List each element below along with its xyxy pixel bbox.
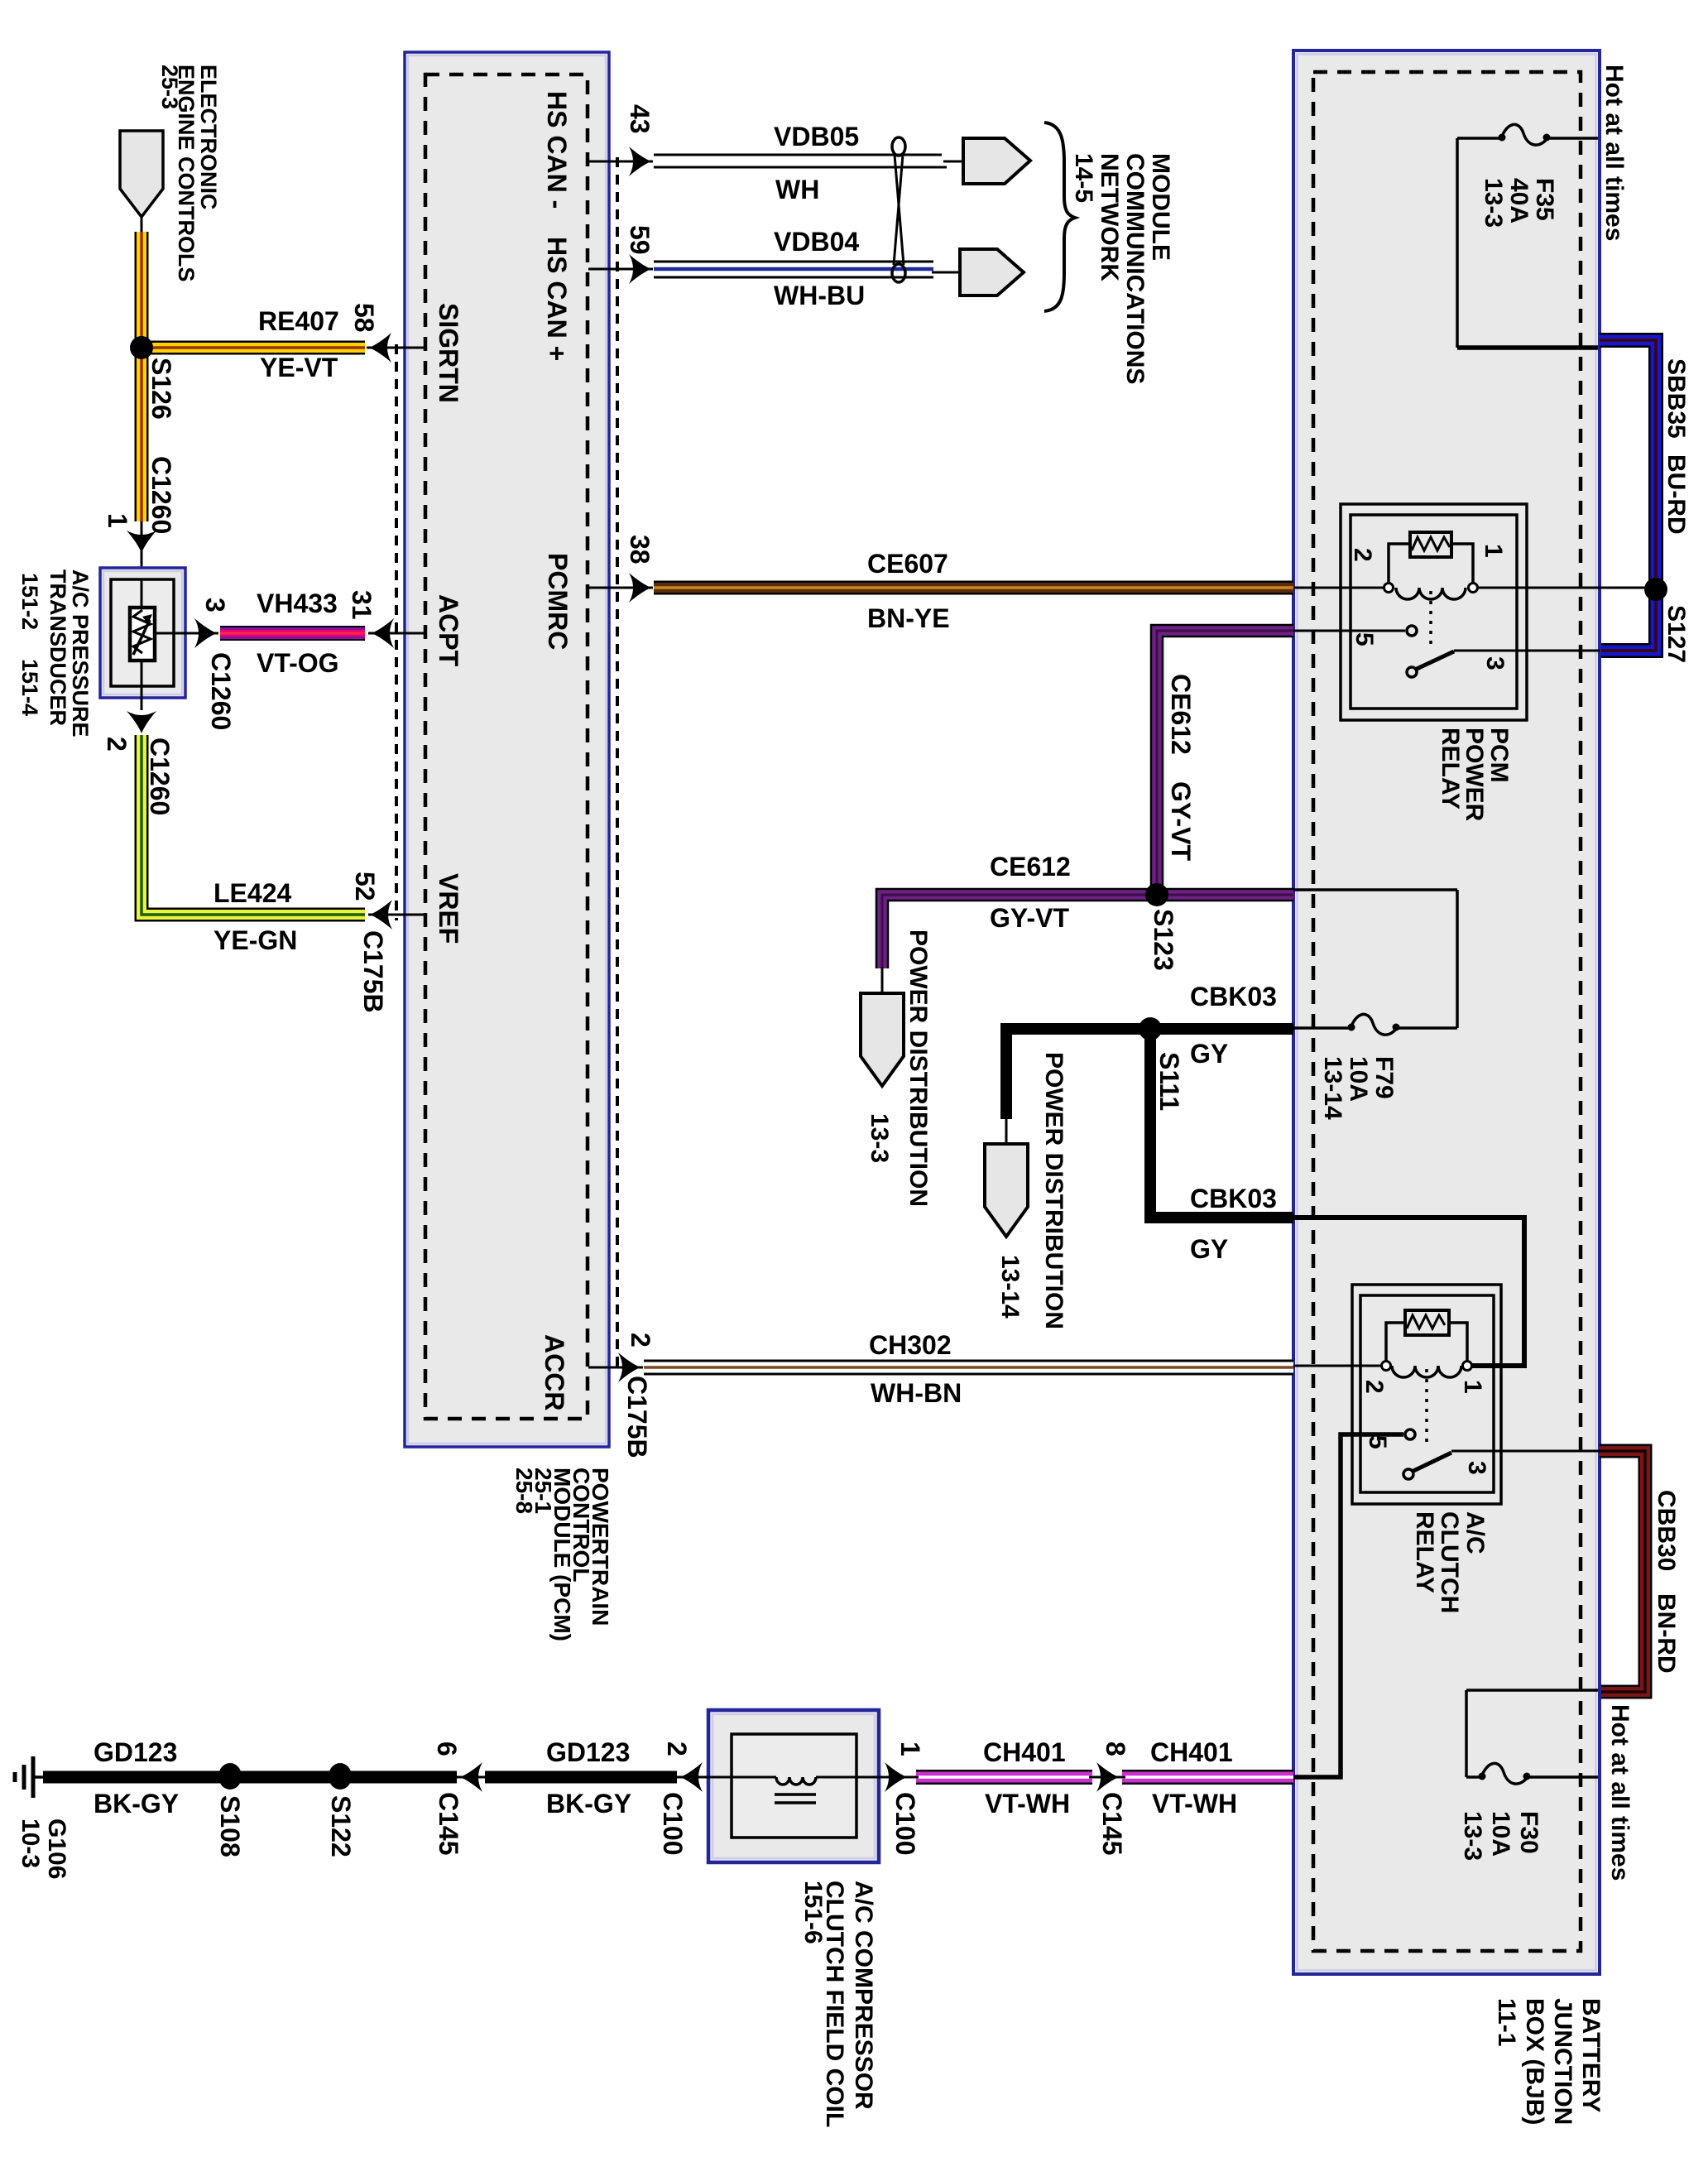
wire stub VREF pin 52 bbox=[368, 914, 425, 916]
svg-text:2: 2 bbox=[662, 1742, 692, 1756]
connector arrow C1260 pin 2 bbox=[127, 711, 156, 733]
svg-text:C145: C145 bbox=[1097, 1792, 1127, 1856]
svg-text:RELAY: RELAY bbox=[1411, 1511, 1438, 1593]
svg-text:CH401: CH401 bbox=[983, 1737, 1066, 1767]
svg-text:25-3: 25-3 bbox=[157, 65, 182, 109]
relay pin 5 wire from CH401 bbox=[1293, 1434, 1403, 1777]
fuse F35 40A bbox=[1457, 124, 1598, 348]
svg-text:1: 1 bbox=[1480, 544, 1507, 558]
label GD123 BK-GY (left) bbox=[94, 1737, 179, 1818]
relay pin labels 2 1 5 3 bbox=[1349, 544, 1509, 670]
svg-text:14-5: 14-5 bbox=[1070, 153, 1097, 203]
svg-text:BN-RD: BN-RD bbox=[1653, 1593, 1680, 1674]
wire CE612 GY-VT (vertical from relay pin 5) bbox=[1157, 631, 1293, 895]
svg-text:3: 3 bbox=[200, 598, 230, 613]
svg-text:GY-VT: GY-VT bbox=[1166, 781, 1196, 861]
label CE612 GY-VT (horizontal wire) bbox=[990, 852, 1071, 933]
pin 2 ACCR stub bbox=[588, 1367, 643, 1369]
svg-text:S108: S108 bbox=[215, 1795, 245, 1857]
svg-text:COMMUNICATIONS: COMMUNICATIONS bbox=[1121, 153, 1149, 384]
svg-text:POWER DISTRIBUTION: POWER DISTRIBUTION bbox=[904, 930, 932, 1207]
connector arrow at pin 58 bbox=[369, 333, 391, 363]
svg-text:59: 59 bbox=[625, 225, 655, 255]
label MODULE COMMUNICATIONS NETWORK 14-5 bbox=[1070, 153, 1174, 384]
twisted pair twist symbol bbox=[892, 137, 905, 282]
relay coil feed line (CE607) bbox=[1293, 587, 1384, 589]
pin 43 stub bbox=[588, 161, 653, 163]
svg-text:40A: 40A bbox=[1505, 178, 1533, 223]
power distribution off-page arrow 13-3 bbox=[881, 967, 884, 997]
svg-text:C145: C145 bbox=[434, 1792, 463, 1856]
label VDB05 WH bbox=[774, 122, 859, 204]
wire thin joints at bottom connectors bbox=[453, 1776, 1125, 1779]
svg-text:LE424: LE424 bbox=[213, 878, 291, 908]
svg-text:YE-GN: YE-GN bbox=[213, 925, 297, 955]
svg-text:6: 6 bbox=[432, 1742, 462, 1756]
label POWER DISTRIBUTION 13-3 bbox=[866, 930, 932, 1207]
label CBB30 BN-RD bbox=[1653, 1490, 1680, 1674]
svg-text:WH-BN: WH-BN bbox=[871, 1378, 962, 1408]
svg-text:25-8: 25-8 bbox=[511, 1468, 537, 1514]
relay switch pole bbox=[1403, 1469, 1413, 1479]
svg-text:GY-VT: GY-VT bbox=[990, 903, 1069, 933]
svg-text:1: 1 bbox=[1459, 1380, 1486, 1394]
wire VH433 VT-OG bbox=[220, 626, 365, 641]
svg-text:BATTERY: BATTERY bbox=[1577, 1998, 1605, 2112]
svg-text:TRANSDUCER: TRANSDUCER bbox=[46, 569, 70, 726]
svg-text:GD123: GD123 bbox=[546, 1737, 630, 1767]
svg-text:POWER DISTRIBUTION: POWER DISTRIBUTION bbox=[1040, 1052, 1067, 1329]
svg-text:Hot at all times: Hot at all times bbox=[1600, 65, 1628, 241]
svg-text:S127: S127 bbox=[1662, 605, 1690, 663]
connector dashed line (right of PCM) bbox=[616, 157, 619, 1370]
svg-text:151-6: 151-6 bbox=[799, 1881, 827, 1944]
svg-text:CE612: CE612 bbox=[990, 852, 1071, 882]
connector arrow C145 pin 6 bbox=[460, 1762, 482, 1792]
svg-text:13-3: 13-3 bbox=[1480, 178, 1507, 228]
relay pin 5 contact bbox=[1405, 1429, 1415, 1439]
wire CH401 VT-WH (right) bbox=[1122, 1770, 1293, 1785]
label GD123 BK-GY (middle) bbox=[546, 1737, 631, 1818]
PCM power relay bbox=[1341, 504, 1527, 720]
A/C clutch relay bbox=[1352, 1285, 1501, 1504]
svg-text:151-4: 151-4 bbox=[17, 659, 42, 716]
svg-text:1: 1 bbox=[895, 1742, 925, 1756]
svg-text:S126: S126 bbox=[146, 358, 176, 420]
wire CH302 WH-BN bbox=[644, 1360, 1293, 1376]
A/C pressure transducer box bbox=[100, 568, 195, 710]
fuse F79 10A bbox=[1293, 890, 1457, 1035]
wire stub ACPT pin 31 bbox=[368, 632, 425, 635]
label POWER DISTRIBUTION 13-14 bbox=[996, 1052, 1067, 1329]
svg-text:C1260: C1260 bbox=[145, 737, 175, 815]
svg-text:VH433: VH433 bbox=[257, 589, 338, 618]
svg-text:C100: C100 bbox=[658, 1792, 688, 1856]
svg-text:CBB30: CBB30 bbox=[1653, 1490, 1680, 1571]
svg-text:S111: S111 bbox=[1154, 1052, 1184, 1111]
wire GD123 BK-GY (ground side) bbox=[43, 1771, 457, 1784]
relay switch pole bbox=[1407, 667, 1417, 677]
svg-text:A/C: A/C bbox=[1461, 1511, 1489, 1554]
relay pin labels 2 1 5 3 bbox=[1360, 1380, 1490, 1475]
svg-text:JUNCTION: JUNCTION bbox=[1549, 1998, 1576, 2125]
svg-text:ACPT: ACPT bbox=[434, 594, 463, 667]
off-page connector ELECTRONIC ENGINE CONTROLS bbox=[120, 131, 163, 233]
svg-text:WH-BU: WH-BU bbox=[774, 281, 865, 310]
svg-text:PCM: PCM bbox=[1485, 728, 1513, 783]
svg-text:HS CAN +: HS CAN + bbox=[542, 237, 572, 361]
svg-text:2: 2 bbox=[102, 737, 132, 752]
wire LE424 YE-GN bbox=[142, 735, 365, 915]
svg-text:C175B: C175B bbox=[622, 1376, 652, 1458]
label F35 40A 13-3 bbox=[1480, 178, 1558, 228]
wire SBB35 BU-RD bbox=[1600, 340, 1656, 651]
pin 3 arrow of transducer bbox=[194, 618, 217, 648]
relay coil feed line (CH302) bbox=[1293, 1365, 1382, 1367]
relay pin 5 contact bbox=[1407, 626, 1417, 636]
pin 38 stub bbox=[588, 587, 653, 589]
svg-text:5: 5 bbox=[1364, 1435, 1391, 1449]
svg-text:43: 43 bbox=[625, 104, 655, 134]
svg-text:G106: G106 bbox=[43, 1818, 70, 1879]
svg-text:2: 2 bbox=[1349, 548, 1376, 562]
transducer sensor element bbox=[130, 608, 155, 661]
svg-text:13-3: 13-3 bbox=[1459, 1811, 1486, 1861]
svg-text:ELECTRONIC: ELECTRONIC bbox=[196, 65, 221, 210]
svg-text:VREF: VREF bbox=[434, 873, 463, 944]
svg-text:2: 2 bbox=[626, 1333, 655, 1348]
svg-text:C1260: C1260 bbox=[146, 456, 176, 534]
svg-text:8: 8 bbox=[1101, 1742, 1130, 1756]
connector arrow C100 pin 1 bbox=[885, 1762, 907, 1792]
svg-text:CBK03: CBK03 bbox=[1190, 1184, 1277, 1213]
svg-text:10-3: 10-3 bbox=[17, 1818, 44, 1868]
wire CBK03 GY (upper, from F79) bbox=[1006, 1029, 1293, 1119]
label G106 10-3 bbox=[17, 1818, 70, 1879]
brace bbox=[1044, 123, 1075, 311]
splice S122 bbox=[329, 1763, 352, 1790]
svg-text:SBB35: SBB35 bbox=[1662, 358, 1690, 439]
svg-text:BU-RD: BU-RD bbox=[1662, 454, 1690, 535]
relay coil nodes bbox=[1384, 584, 1394, 593]
svg-text:S122: S122 bbox=[326, 1795, 356, 1857]
svg-text:RELAY: RELAY bbox=[1437, 728, 1464, 810]
wire CH401 VT-WH (left) bbox=[916, 1770, 1092, 1785]
svg-text:BN-YE: BN-YE bbox=[867, 603, 950, 633]
svg-text:11-1: 11-1 bbox=[1493, 1998, 1520, 2046]
BJB box bbox=[1293, 50, 1600, 1974]
svg-text:10A: 10A bbox=[1487, 1811, 1514, 1857]
label F30 10A 13-3 bbox=[1459, 1811, 1542, 1861]
svg-text:13-14: 13-14 bbox=[996, 1255, 1024, 1319]
svg-text:VT-OG: VT-OG bbox=[257, 648, 339, 678]
svg-text:A/C COMPRESSOR: A/C COMPRESSOR bbox=[850, 1881, 877, 2110]
off-page arrow to network (lower) bbox=[960, 249, 1024, 295]
svg-text:WH: WH bbox=[775, 175, 819, 204]
svg-text:VT-WH: VT-WH bbox=[1152, 1789, 1237, 1818]
relay pin 3 line to SBB35 bbox=[1454, 650, 1600, 652]
label BATTERY JUNCTION BOX (BJB) 11-1 bbox=[1493, 1998, 1605, 2125]
label SBB35 BU-RD bbox=[1662, 358, 1690, 535]
splice S126 bbox=[130, 336, 153, 359]
label F79 10A 13-14 bbox=[1319, 1056, 1398, 1120]
connector arrow C145 pin 8 bbox=[1096, 1762, 1119, 1792]
relay pin 3 line to CBB30 bbox=[1451, 1450, 1600, 1453]
wire stub SIGRTN pin 58 bbox=[367, 347, 425, 349]
svg-text:C100: C100 bbox=[890, 1792, 920, 1856]
connector arrow C1260 pin 1 bbox=[141, 521, 143, 579]
svg-text:BOX (BJB): BOX (BJB) bbox=[1521, 1998, 1548, 2125]
svg-text:10A: 10A bbox=[1345, 1056, 1372, 1102]
label A/C PRESSURE TRANSDUCER 151-2 151-4 bbox=[17, 569, 93, 737]
svg-text:151-2: 151-2 bbox=[17, 573, 42, 630]
relay coil nodes bbox=[1382, 1362, 1391, 1371]
wire CE607 BN-YE bbox=[654, 581, 1293, 595]
svg-text:VDB04: VDB04 bbox=[774, 227, 859, 257]
svg-text:A/C PRESSURE: A/C PRESSURE bbox=[68, 569, 93, 737]
label CE612 GY-VT (vertical wire) bbox=[1166, 674, 1196, 861]
wire VDB05 WH twisted pair bbox=[654, 155, 963, 167]
svg-text:CLUTCH: CLUTCH bbox=[1436, 1511, 1463, 1613]
label CBK03 GY (lower) bbox=[1190, 1184, 1277, 1264]
splice S108 bbox=[218, 1763, 242, 1790]
svg-text:MODULE: MODULE bbox=[1147, 153, 1174, 261]
svg-text:VDB05: VDB05 bbox=[774, 122, 859, 151]
svg-text:S123: S123 bbox=[1149, 909, 1178, 971]
connector arrow C100 pin 2 bbox=[680, 1762, 703, 1792]
svg-text:C1260: C1260 bbox=[206, 652, 236, 730]
svg-text:RE407: RE407 bbox=[258, 306, 339, 336]
svg-text:VT-WH: VT-WH bbox=[985, 1789, 1070, 1818]
splice S111 bbox=[1139, 1017, 1162, 1040]
svg-text:13-14: 13-14 bbox=[1319, 1056, 1346, 1120]
svg-text:5: 5 bbox=[1351, 632, 1378, 646]
wire RE407 YE-VT vertical + horizontal bbox=[142, 232, 365, 521]
label PCM POWER RELAY bbox=[1437, 728, 1513, 822]
relay pin 1 line to S127 bbox=[1477, 587, 1656, 589]
svg-text:CE612: CE612 bbox=[1166, 674, 1196, 755]
label ELECTRONIC ENGINE CONTROLS 25-3 bbox=[157, 65, 221, 282]
svg-text:1: 1 bbox=[103, 513, 132, 528]
label A/C CLUTCH RELAY bbox=[1411, 1511, 1489, 1613]
connector C175E dashed line (left of PCM) bbox=[395, 344, 398, 920]
svg-text:BK-GY: BK-GY bbox=[546, 1789, 631, 1818]
svg-text:CH401: CH401 bbox=[1150, 1737, 1233, 1767]
label CE607 BN-YE bbox=[867, 549, 950, 633]
connector arrow at pin 52 bbox=[370, 900, 392, 930]
label POWERTRAIN CONTROL MODULE (PCM) 25-1 25-8 bbox=[511, 1468, 613, 1641]
svg-text:58: 58 bbox=[349, 303, 379, 333]
svg-text:F30: F30 bbox=[1515, 1811, 1542, 1854]
svg-text:GD123: GD123 bbox=[94, 1737, 177, 1767]
svg-text:ACCR: ACCR bbox=[540, 1334, 569, 1410]
power distribution off-page arrow 13-14 bbox=[1005, 1117, 1008, 1146]
off-page arrow to network (upper) bbox=[963, 138, 1030, 184]
label CH401 VT-WH (left) bbox=[983, 1737, 1070, 1818]
svg-text:3: 3 bbox=[1463, 1461, 1490, 1475]
svg-text:HS CAN -: HS CAN - bbox=[542, 91, 572, 209]
ground G106 bbox=[15, 1756, 45, 1798]
svg-text:NETWORK: NETWORK bbox=[1096, 153, 1123, 281]
BJB internal wire CBK03 to A/C clutch relay coil bbox=[1293, 1218, 1524, 1366]
svg-text:F79: F79 bbox=[1370, 1056, 1398, 1099]
wire CBB30 BN-RD bbox=[1600, 1451, 1645, 1692]
wire VDB04 WH-BU twisted pair bbox=[654, 262, 960, 277]
label CBK03 GY (upper) bbox=[1190, 982, 1277, 1069]
connector arrow at pin 31 bbox=[372, 618, 394, 648]
A/C compressor clutch field coil box bbox=[703, 1710, 885, 1862]
svg-text:52: 52 bbox=[350, 872, 380, 901]
svg-text:GY: GY bbox=[1190, 1234, 1228, 1264]
label CH401 VT-WH (right) bbox=[1150, 1737, 1237, 1818]
svg-text:YE-VT: YE-VT bbox=[260, 353, 338, 382]
wire GD123 BK-GY (middle) bbox=[485, 1771, 677, 1784]
splice S127 bbox=[1644, 578, 1667, 601]
svg-text:PCMRC: PCMRC bbox=[543, 553, 573, 650]
label VDB04 WH-BU bbox=[774, 227, 865, 310]
svg-text:CBK03: CBK03 bbox=[1190, 982, 1277, 1011]
svg-text:F35: F35 bbox=[1531, 178, 1558, 221]
pin 59 stub bbox=[588, 268, 653, 271]
relay pin 5 stub from CE612 bbox=[1293, 630, 1405, 632]
svg-text:SIGRTN: SIGRTN bbox=[434, 303, 463, 403]
svg-text:2: 2 bbox=[1360, 1380, 1388, 1394]
label VH433 VT-OG bbox=[257, 589, 339, 678]
svg-text:31: 31 bbox=[347, 590, 377, 620]
svg-text:GY: GY bbox=[1190, 1039, 1228, 1069]
splice S123 bbox=[1145, 883, 1168, 906]
label RE407 YE-VT bbox=[258, 306, 339, 382]
svg-text:38: 38 bbox=[625, 535, 655, 565]
PCM module box bbox=[405, 52, 609, 1447]
svg-text:CE607: CE607 bbox=[867, 549, 948, 579]
svg-text:3: 3 bbox=[1481, 656, 1509, 670]
svg-text:CH302: CH302 bbox=[869, 1330, 952, 1360]
svg-text:Hot at all times: Hot at all times bbox=[1606, 1704, 1634, 1881]
svg-text:BK-GY: BK-GY bbox=[94, 1789, 179, 1818]
label LE424 YE-GN bbox=[213, 878, 297, 955]
svg-text:13-3: 13-3 bbox=[866, 1113, 893, 1163]
wire CE612 GY-VT (horizontal) bbox=[882, 895, 1293, 968]
label CH302 WH-BN bbox=[869, 1330, 962, 1408]
wire CBK03 GY (lower, S111 to relay) bbox=[1150, 1029, 1293, 1218]
label A/C COMPRESSOR CLUTCH FIELD COIL 151-6 bbox=[799, 1881, 877, 2127]
fuse F30 10A bbox=[1466, 1690, 1598, 1784]
svg-text:C175B: C175B bbox=[358, 930, 388, 1013]
